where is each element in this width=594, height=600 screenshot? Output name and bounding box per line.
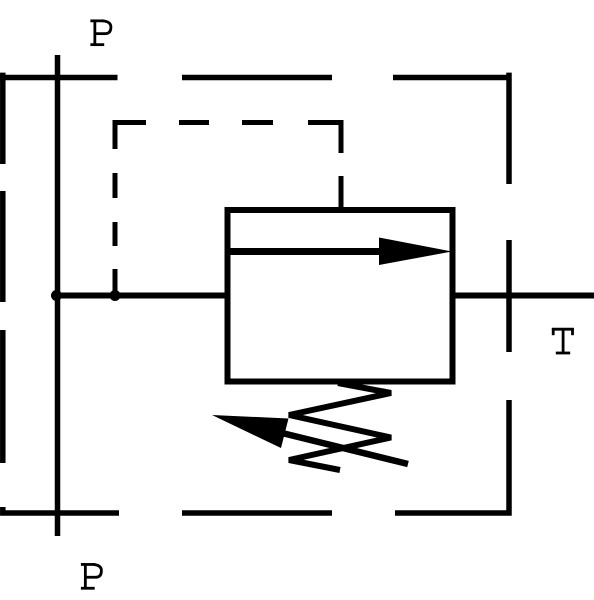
enclosure dashed border left dash 3 (0, 330, 6, 463)
port label T (552, 328, 574, 353)
pilot line dashed top-right corner (308, 123, 341, 154)
wire valve to T horizontal (452, 293, 594, 299)
enclosure dashed border top-right corner dash (393, 73, 511, 184)
pilot line dashed top dash 2 (179, 120, 209, 125)
pilot line dashed top-left corner (115, 123, 146, 150)
pilot line dashed left dash 2 (113, 173, 118, 198)
pilot line dashed top dash 3 (242, 120, 273, 125)
wire P to valve horizontal (54, 293, 228, 299)
junction node on P line (51, 290, 62, 301)
adjustment arrow shaft (280, 433, 408, 465)
enclosure dashed border bottom-left corner dash (3, 507, 119, 513)
pilot line dashed left dash 3 (113, 222, 118, 246)
enclosure dashed border top-left corner dash (0, 73, 118, 164)
enclosure dashed border bottom dash 2 (182, 510, 332, 516)
enclosure dashed border bottom-right corner dash (395, 400, 509, 513)
enclosure dashed border left dash 2 (0, 191, 6, 302)
wire P supply vertical line (55, 55, 61, 536)
valve body V1 (228, 210, 453, 382)
enclosure dashed border right dash 2 (506, 240, 512, 352)
adjustment arrowhead (212, 415, 289, 448)
flow path arrowhead (379, 238, 452, 266)
port label P (bottom) (81, 563, 102, 589)
pilot line dashed right dash 2 (339, 176, 344, 210)
enclosure dashed border top dash 2 (182, 75, 332, 81)
junction node pilot tap (110, 290, 121, 301)
spring (289, 383, 391, 470)
pilot line dashed left dash 4 (113, 269, 118, 295)
port label P (top) (90, 20, 111, 46)
flow path arrow shaft inside valve (228, 248, 386, 255)
